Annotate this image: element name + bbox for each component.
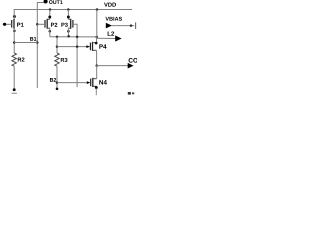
label N5 bbox=[99, 80, 107, 84]
label B2 bbox=[50, 78, 56, 82]
node junction N4 gate row on R3 column bbox=[56, 45, 59, 48]
wire R2 to ground bbox=[13, 66, 15, 89]
label N4 bbox=[99, 44, 106, 48]
label R2 bbox=[18, 58, 25, 62]
node junction N4 column on rail bbox=[96, 8, 99, 11]
wire P1 source to rail bbox=[13, 10, 15, 19]
ground terminal middle bbox=[56, 88, 59, 91]
resistor R3 bbox=[55, 53, 59, 66]
node junction VBIAS lead bbox=[130, 24, 133, 27]
wire B1 row bbox=[14, 42, 37, 44]
label L2 bbox=[108, 31, 115, 35]
wire N4 gate row bbox=[57, 46, 87, 48]
VDD rail bbox=[14, 9, 132, 11]
node junction CO branch bbox=[95, 64, 98, 67]
node junction bus P3 drain bbox=[67, 35, 70, 38]
ground terminal N5 source bbox=[95, 86, 98, 95]
node junction N4 gate row on P3 gate drop bbox=[76, 45, 79, 48]
transistor P3 bbox=[67, 16, 73, 33]
label OUT1 bbox=[49, 0, 63, 4]
wire N4 column from rail bbox=[96, 10, 98, 38]
terminal CO arrow bbox=[128, 63, 134, 69]
pin bar right edge bbox=[135, 22, 137, 29]
terminal OUT1 dot bbox=[44, 0, 48, 3]
terminal L2 arrow bbox=[115, 35, 121, 41]
wire R3 to ground bbox=[56, 66, 58, 90]
label B1 bbox=[30, 37, 36, 41]
label P3 bbox=[61, 23, 67, 27]
wire N5 drain lead bbox=[96, 66, 98, 79]
wire P3 source to rail bbox=[67, 10, 69, 20]
label P1 bbox=[17, 23, 23, 27]
label R3 bbox=[61, 58, 68, 62]
terminal VBIAS arrow bbox=[106, 23, 112, 29]
node junction bus N4 column bbox=[96, 36, 99, 39]
wire P2 source to rail bbox=[49, 10, 51, 20]
wire P2 gate lead bbox=[37, 23, 45, 25]
node junction B2 row bbox=[56, 81, 59, 84]
label CO bbox=[129, 58, 138, 63]
transistor P2 bbox=[45, 16, 51, 33]
wire VBIAS lead bbox=[112, 25, 135, 27]
wire drain bus bbox=[50, 36, 97, 38]
figure mark bottom right bbox=[128, 92, 134, 95]
node junction P3 source on rail bbox=[67, 8, 70, 11]
wire L2 lead bbox=[97, 37, 116, 39]
label P2 bbox=[51, 23, 57, 27]
transistor N5 bbox=[87, 78, 97, 87]
wire CO lead bbox=[97, 65, 128, 67]
wire P3 drain to bus bbox=[67, 28, 69, 37]
node junction B1 row left bbox=[13, 41, 16, 44]
transistor N4 bbox=[86, 42, 97, 51]
node junction P2 gate tap bbox=[36, 23, 39, 26]
resistor R2 bbox=[12, 53, 16, 66]
node junction B1 tap bbox=[36, 41, 39, 44]
transistor P1 bbox=[12, 15, 16, 32]
label VBIAS bbox=[105, 17, 122, 21]
wire P1 drain down bbox=[13, 29, 15, 53]
wire P1 gate lead bbox=[3, 23, 12, 25]
wire P3 gate drop bbox=[73, 24, 77, 87]
wire P2 drain to bus bbox=[49, 28, 51, 37]
terminal input dot bbox=[3, 23, 6, 26]
node junction bus P3 gate drop bbox=[76, 35, 79, 38]
ground terminal left bbox=[12, 88, 17, 93]
wire R3 column upper bbox=[56, 37, 58, 53]
node junction bus R3 bbox=[56, 36, 59, 39]
wire N4 source down bbox=[96, 50, 98, 65]
wire OUT1 stub bbox=[37, 3, 44, 89]
wire N4 drain lead bbox=[96, 37, 98, 43]
wire N5 gate row bbox=[57, 82, 87, 84]
label VDD bbox=[104, 3, 116, 7]
node junction P2 source on rail bbox=[49, 8, 52, 11]
